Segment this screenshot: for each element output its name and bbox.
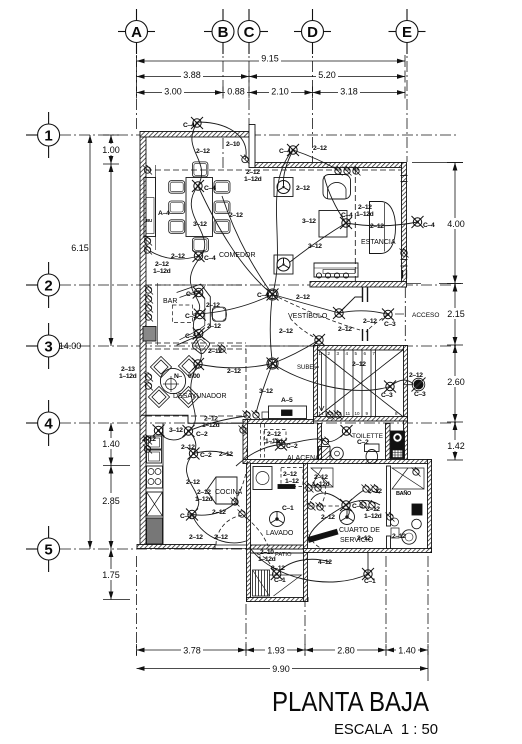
svg-text:2–12: 2–12 [227,368,241,375]
svg-text:2–12: 2–12 [283,471,297,478]
svg-text:3.78: 3.78 [183,646,201,656]
svg-text:C–1: C–1 [274,577,286,584]
svg-text:C–2: C–2 [200,452,212,459]
svg-text:2–10: 2–10 [260,549,274,556]
svg-text:3–12: 3–12 [271,565,285,572]
svg-text:2–12: 2–12 [208,348,222,355]
svg-text:SERVICIO: SERVICIO [340,537,374,544]
svg-text:3: 3 [44,339,52,356]
svg-text:2.60: 2.60 [447,377,465,387]
svg-text:3–12: 3–12 [302,218,316,225]
svg-text:2.85: 2.85 [102,496,120,506]
svg-text:SUBE: SUBE [297,365,313,371]
svg-text:2–12: 2–12 [321,514,335,521]
svg-text:6: 6 [364,351,367,356]
svg-text:1–12d: 1–12d [258,556,276,563]
svg-text:BAR: BAR [163,298,177,305]
svg-text:1: 1 [44,128,52,145]
svg-text:1.93: 1.93 [267,646,285,656]
svg-text:9: 9 [366,411,369,416]
svg-text:PATIO: PATIO [275,552,292,558]
svg-text:1–12d: 1–12d [119,373,137,380]
svg-text:1–12: 1–12 [285,478,299,485]
svg-text:1–12d: 1–12d [195,496,213,503]
svg-text:1.75: 1.75 [102,570,120,580]
svg-text:9.15: 9.15 [261,53,279,63]
svg-text:A–5: A–5 [281,397,293,404]
svg-text:2–12: 2–12 [296,185,310,192]
svg-text:7: 7 [373,351,376,356]
svg-text:2–12: 2–12 [358,204,372,211]
svg-text:2–10: 2–10 [226,141,240,148]
svg-text:C–5: C–5 [185,333,197,340]
svg-text:1.40: 1.40 [398,646,416,656]
svg-text:D: D [307,24,318,41]
svg-text:1–12d: 1–12d [356,211,374,218]
svg-text:2–12: 2–12 [279,328,293,335]
svg-text:2–12: 2–12 [352,361,366,368]
svg-text:C–4: C–4 [341,212,353,219]
svg-text:N–: N– [174,373,183,380]
svg-text:BU: BU [146,218,152,223]
svg-text:5: 5 [44,542,52,559]
svg-text:3–12: 3–12 [308,243,322,250]
svg-text:2–12: 2–12 [212,509,226,516]
svg-text:COCINA: COCINA [215,489,243,496]
svg-text:2–13: 2–13 [121,366,135,373]
svg-text:2–12: 2–12 [368,488,382,495]
svg-text:2–12: 2–12 [296,294,310,301]
svg-text:ESTANCIA: ESTANCIA [361,239,396,246]
svg-text:2–12: 2–12 [229,212,243,219]
svg-text:3–12: 3–12 [193,221,207,228]
svg-text:ALACENA: ALACENA [287,455,320,462]
svg-text:C: C [244,24,255,41]
svg-text:C–2: C–2 [196,431,208,438]
svg-text:C–4: C–4 [257,292,269,299]
svg-text:5.20: 5.20 [318,70,336,80]
svg-text:3.18: 3.18 [340,86,358,96]
svg-text:CUARTO DE: CUARTO DE [339,527,380,534]
svg-text:C–2: C–2 [357,439,369,446]
svg-text:12: 12 [337,411,343,416]
svg-text:3.00: 3.00 [164,86,182,96]
svg-text:3: 3 [337,351,340,356]
svg-text:C–3: C–3 [384,321,396,328]
svg-text:DESAYUNADOR: DESAYUNADOR [173,393,227,400]
svg-text:C–3: C–3 [414,391,426,398]
svg-text:2–12: 2–12 [206,302,220,309]
svg-text:BAÑO: BAÑO [396,490,412,497]
svg-text:11: 11 [346,411,351,416]
svg-text:2.10: 2.10 [271,86,289,96]
svg-text:2–12: 2–12 [219,451,233,458]
svg-text:10: 10 [355,411,361,416]
svg-text:E: E [402,24,412,41]
svg-text:4: 4 [346,351,349,356]
svg-text:2–12: 2–12 [409,372,423,379]
svg-text:14.00: 14.00 [59,341,82,351]
svg-text:1–12d: 1–12d [202,422,220,429]
svg-text:VESTÍBULO: VESTÍBULO [288,311,328,320]
svg-text:C–5: C–5 [186,291,198,298]
svg-text:9.90: 9.90 [272,664,290,674]
svg-text:1: 1 [319,351,322,356]
svg-text:2–12: 2–12 [366,506,380,513]
svg-text:2–12: 2–12 [267,431,281,438]
svg-text:C–4: C–4 [204,185,216,192]
svg-text:1–12d: 1–12d [265,438,283,445]
svg-text:13: 13 [328,411,334,416]
svg-text:C–1: C–1 [282,505,294,512]
svg-text:C–1: C–1 [352,503,364,510]
svg-text:ESCALA 1 : 50: ESCALA 1 : 50 [334,721,438,738]
svg-text:C–5: C–5 [185,313,197,320]
svg-text:C–2: C–2 [286,443,298,450]
svg-text:3.88: 3.88 [183,70,201,80]
svg-text:2–12: 2–12 [207,323,221,330]
svg-text:2–12: 2–12 [370,223,384,230]
svg-text:2–12: 2–12 [363,318,377,325]
svg-text:2–12: 2–12 [214,534,228,541]
svg-text:14: 14 [319,411,325,416]
svg-text:1–12d: 1–12d [153,268,171,275]
svg-text:6.15: 6.15 [71,243,89,253]
svg-text:1–12d: 1–12d [312,481,330,488]
svg-text:2: 2 [44,278,52,295]
svg-text:2–12: 2–12 [197,489,211,496]
svg-text:LAVADO: LAVADO [266,530,294,537]
svg-text:A–4: A–4 [158,210,170,217]
svg-text:2.80: 2.80 [337,646,355,656]
svg-text:C–3: C–3 [180,513,192,520]
svg-text:C–4: C–4 [204,255,216,262]
svg-text:2: 2 [328,351,331,356]
svg-text:PLANTA BAJA: PLANTA BAJA [272,686,429,717]
svg-text:1–12d: 1–12d [364,513,382,520]
svg-text:4.00: 4.00 [447,219,465,229]
svg-text:A: A [131,24,142,41]
svg-text:C–3: C–3 [381,392,393,399]
svg-text:2.15: 2.15 [447,309,465,319]
svg-text:ACCESO: ACCESO [412,312,439,319]
svg-text:COMEDOR: COMEDOR [219,252,256,259]
svg-text:2–12: 2–12 [392,533,406,540]
svg-text:2–12: 2–12 [196,148,210,155]
svg-text:C–4: C–4 [183,122,195,129]
svg-text:1.42: 1.42 [447,441,465,451]
svg-text:2–12: 2–12 [189,534,203,541]
svg-text:2–12: 2–12 [246,169,260,176]
svg-text:C–1: C–1 [364,578,376,585]
svg-text:0.88: 0.88 [227,86,245,96]
svg-text:2–12: 2–12 [155,261,169,268]
svg-text:2–12: 2–12 [181,444,195,451]
svg-text:1.40: 1.40 [102,439,120,449]
svg-text:1.00: 1.00 [102,145,120,155]
svg-text:2–12: 2–12 [186,479,200,486]
svg-text:3–12: 3–12 [259,388,273,395]
svg-text:3–12: 3–12 [169,427,183,434]
svg-text:5: 5 [355,351,358,356]
svg-text:2–12: 2–12 [142,436,156,443]
svg-text:8: 8 [395,411,398,416]
svg-text:0.00: 0.00 [188,373,200,380]
svg-text:C–4: C–4 [423,222,435,229]
svg-text:TOILETTE: TOILETTE [352,433,384,440]
svg-text:C–4: C–4 [279,148,291,155]
svg-text:2–12: 2–12 [314,474,328,481]
svg-text:2–12: 2–12 [338,326,352,333]
svg-text:1–12d: 1–12d [244,176,262,183]
svg-text:2–12: 2–12 [313,145,327,152]
svg-text:4: 4 [44,416,53,433]
svg-text:B: B [218,24,229,41]
svg-text:4–12: 4–12 [318,559,332,566]
svg-text:2–12: 2–12 [171,253,185,260]
